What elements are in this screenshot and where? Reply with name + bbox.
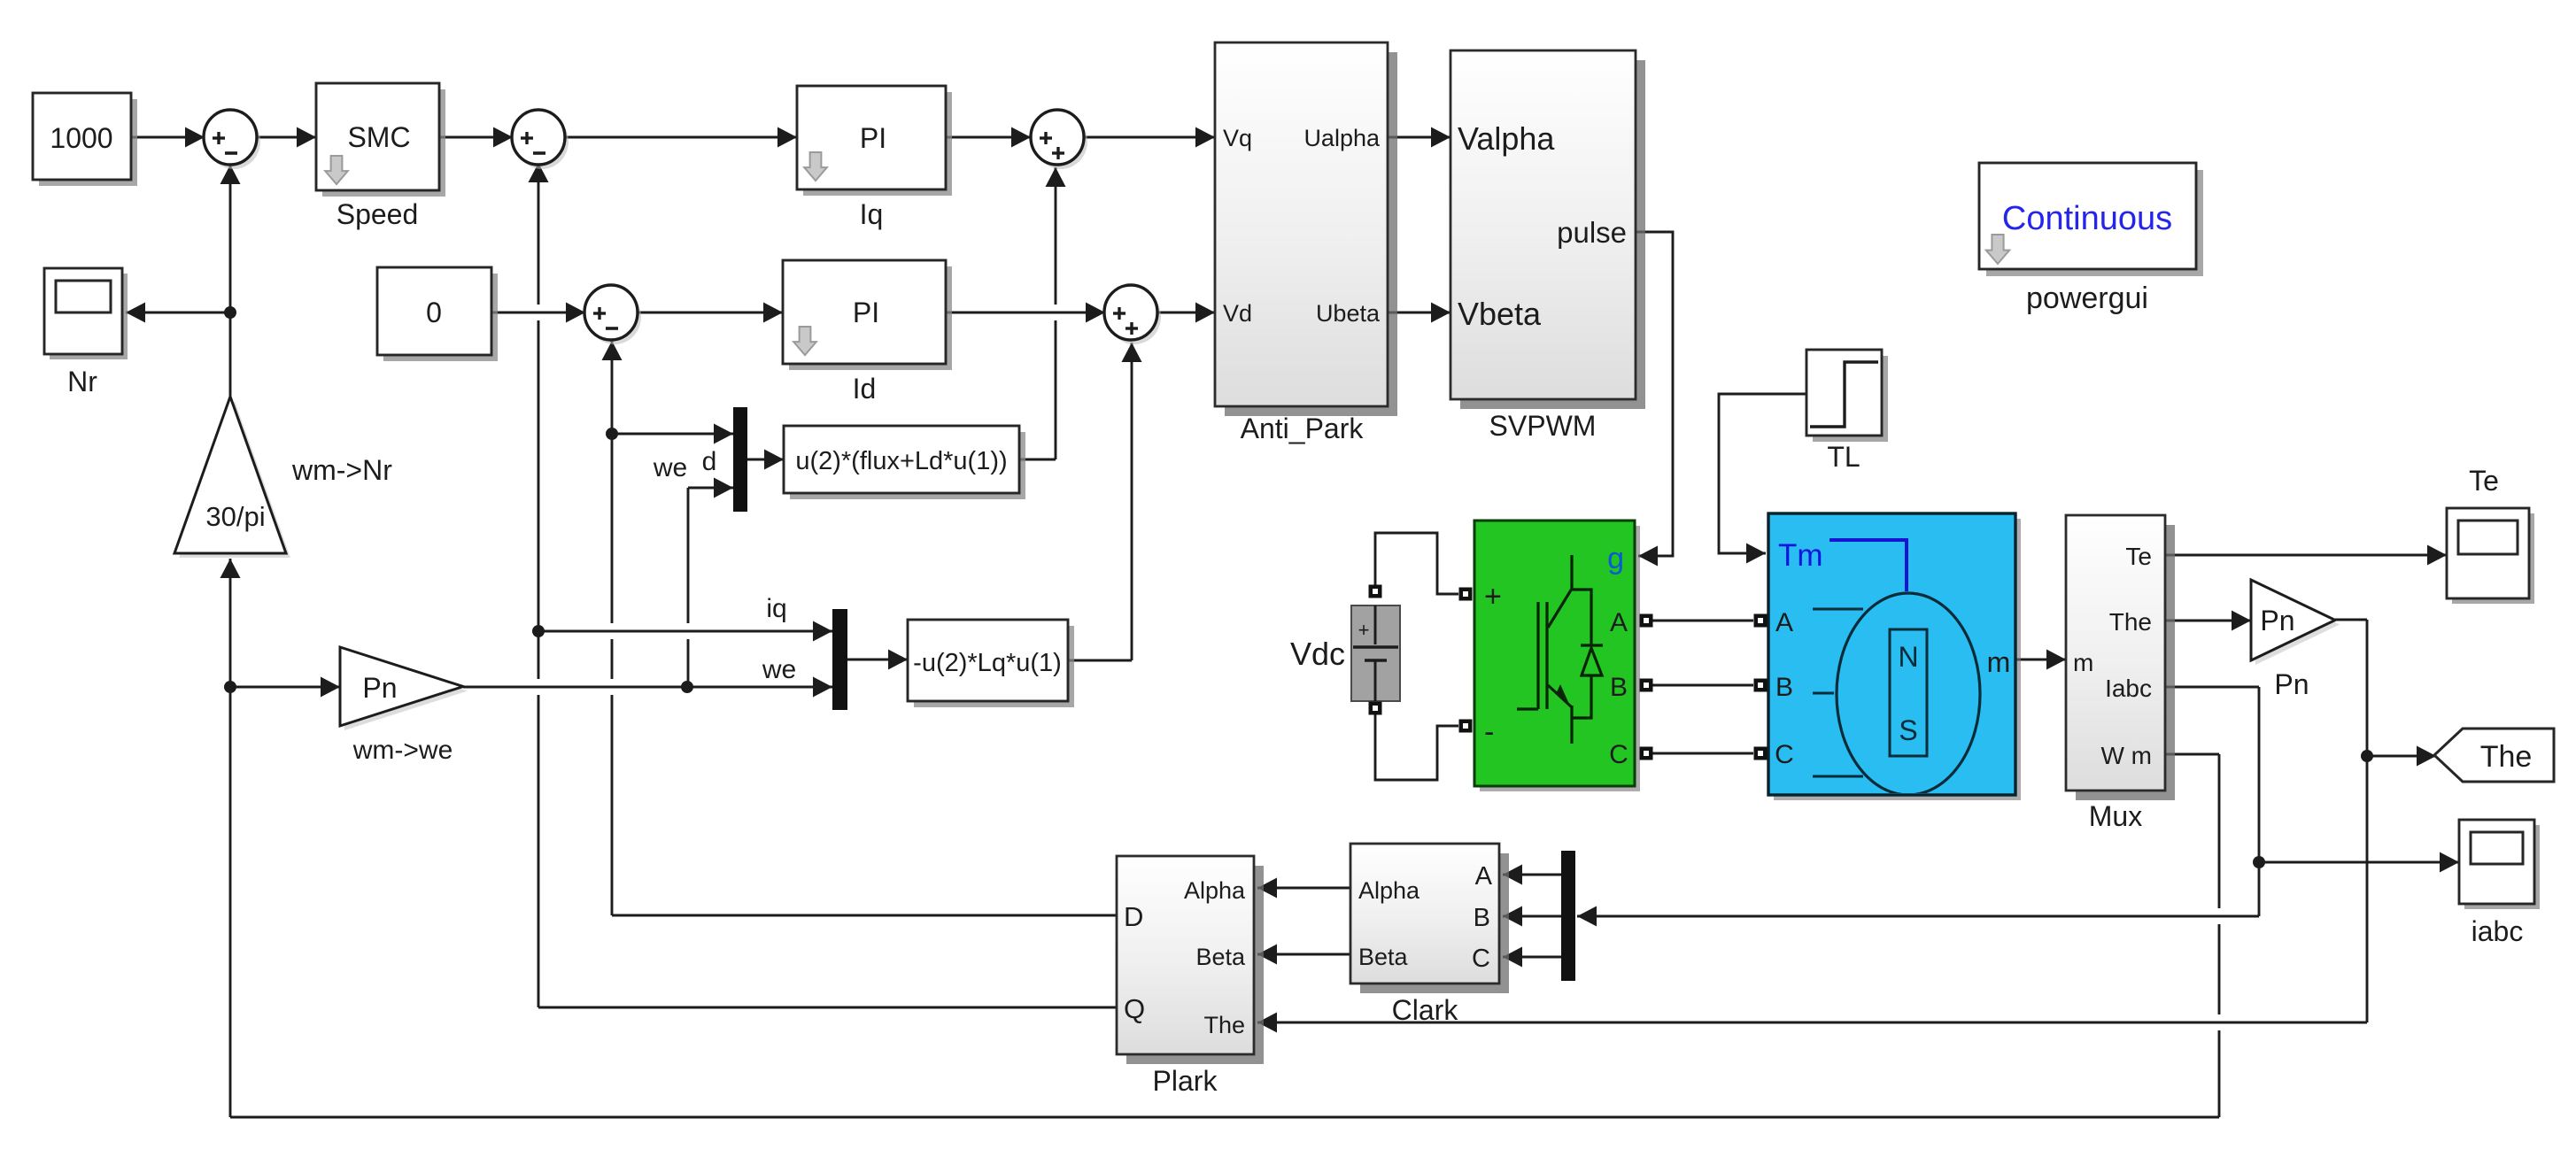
svg-text:+: + <box>1358 619 1370 641</box>
svg-text:Anti_Park: Anti_Park <box>1241 413 1365 444</box>
svg-text:+: + <box>1484 580 1502 613</box>
svg-text:u(2)*(flux+Ld*u(1)): u(2)*(flux+Ld*u(1)) <box>795 447 1007 475</box>
svg-text:Pn: Pn <box>2274 668 2309 700</box>
svg-text:C: C <box>1609 740 1628 769</box>
svg-text:m: m <box>1987 646 2011 678</box>
svg-text:iabc: iabc <box>2472 915 2524 947</box>
svg-text:The: The <box>2480 740 2533 774</box>
svg-text:Vdc: Vdc <box>1290 636 1345 672</box>
svg-text:Vq: Vq <box>1223 125 1252 151</box>
svg-text:iq: iq <box>766 594 786 623</box>
svg-text:-: - <box>1484 715 1494 749</box>
svg-text:Speed: Speed <box>337 198 419 230</box>
svg-text:wm->Nr: wm->Nr <box>291 454 392 486</box>
svg-text:powergui: powergui <box>2026 282 2148 315</box>
svg-text:Continuous: Continuous <box>2002 200 2172 237</box>
svg-text:we: we <box>653 453 687 482</box>
svg-text:Te: Te <box>2469 465 2499 497</box>
svg-text:S: S <box>1899 714 1917 746</box>
svg-text:Pn: Pn <box>2260 605 2294 636</box>
svg-text:30/pi: 30/pi <box>205 501 265 532</box>
svg-text:we: we <box>762 655 796 684</box>
svg-text:B: B <box>1474 904 1490 932</box>
svg-text:pulse: pulse <box>1557 216 1627 249</box>
svg-text:Mux: Mux <box>2089 800 2142 832</box>
svg-text:The: The <box>1203 1012 1245 1038</box>
svg-text:Nr: Nr <box>67 366 97 397</box>
svg-text:-u(2)*Lq*u(1): -u(2)*Lq*u(1) <box>913 649 1062 677</box>
svg-text:The: The <box>2109 608 2152 636</box>
svg-text:Tm: Tm <box>1778 538 1823 573</box>
svg-text:Ualpha: Ualpha <box>1303 125 1381 151</box>
svg-text:Beta: Beta <box>1195 944 1246 970</box>
svg-text:Alpha: Alpha <box>1184 877 1246 904</box>
svg-text:Q: Q <box>1124 993 1145 1024</box>
svg-text:SVPWM: SVPWM <box>1489 410 1597 442</box>
svg-text:Vd: Vd <box>1223 300 1252 327</box>
svg-text:C: C <box>1472 945 1490 973</box>
svg-text:m: m <box>2073 649 2093 676</box>
svg-text:Clark: Clark <box>1392 994 1459 1026</box>
svg-text:Beta: Beta <box>1358 944 1409 970</box>
svg-text:g: g <box>1607 542 1624 575</box>
svg-text:Iabc: Iabc <box>2105 675 2152 702</box>
svg-text:PI: PI <box>860 122 886 154</box>
svg-text:Te: Te <box>2125 543 2152 570</box>
svg-text:1000: 1000 <box>50 122 112 154</box>
svg-text:W m: W m <box>2100 742 2152 769</box>
svg-text:Plark: Plark <box>1153 1065 1218 1097</box>
svg-text:B: B <box>1775 673 1793 702</box>
svg-text:B: B <box>1610 673 1628 702</box>
svg-text:Vbeta: Vbeta <box>1458 296 1542 332</box>
svg-text:SMC: SMC <box>347 121 410 153</box>
svg-text:Pn: Pn <box>362 672 397 704</box>
svg-text:A: A <box>1475 862 1493 891</box>
svg-text:PI: PI <box>853 297 879 328</box>
svg-text:Alpha: Alpha <box>1358 877 1420 904</box>
svg-text:Id: Id <box>853 373 877 405</box>
svg-text:C: C <box>1775 740 1794 769</box>
svg-text:A: A <box>1610 608 1628 637</box>
svg-text:Iq: Iq <box>860 198 884 230</box>
svg-text:Ubeta: Ubeta <box>1316 300 1381 327</box>
svg-text:N: N <box>1898 641 1918 673</box>
svg-text:d: d <box>702 447 717 476</box>
svg-text:D: D <box>1124 901 1143 932</box>
svg-text:0: 0 <box>426 297 442 328</box>
svg-text:Valpha: Valpha <box>1458 120 1555 157</box>
svg-text:A: A <box>1775 608 1793 637</box>
svg-text:TL: TL <box>1827 441 1860 473</box>
svg-text:wm->we: wm->we <box>352 736 453 765</box>
